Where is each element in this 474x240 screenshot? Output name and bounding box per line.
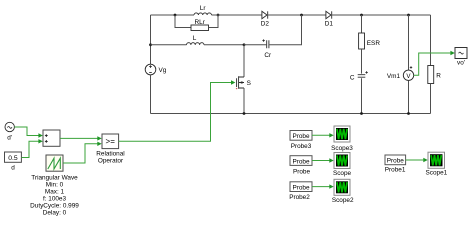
wire top rail segment 1: [151, 14, 195, 16]
node junction left-L: [149, 43, 152, 46]
diode D1: [326, 11, 332, 18]
node junction source-bottom: [243, 112, 246, 115]
wire bottom rail: [151, 113, 431, 115]
scope block Scope: [334, 153, 350, 169]
svg-text:D1: D1: [325, 21, 334, 28]
svg-text:Triangular Wave: Triangular Wave: [31, 175, 78, 182]
svg-text:V: V: [406, 73, 411, 80]
svg-text:Delay: 0: Delay: 0: [43, 210, 67, 217]
wire RLr branch right riser: [209, 15, 219, 28]
svg-text:C: C: [350, 75, 355, 82]
svg-text:Relational: Relational: [96, 151, 124, 158]
svg-text:Probe: Probe: [387, 158, 404, 165]
wire ESR to C: [361, 49, 363, 74]
scope block Scope2: [334, 179, 350, 195]
triangular wave block: [46, 155, 63, 171]
capacitor C: [358, 71, 368, 77]
scope block Scope1: [428, 152, 445, 168]
svg-text:Scope: Scope: [333, 170, 352, 177]
wire probe3 to scope3: [312, 134, 330, 136]
wire Vm1 bottom lead: [408, 81, 410, 114]
svg-text:d': d': [7, 135, 12, 142]
arrowhead relational input 2: [97, 142, 101, 146]
source block d': [5, 122, 14, 131]
svg-text:ESR: ESR: [367, 40, 381, 47]
node junction drain: [243, 43, 246, 46]
wire MOSFET drain: [243, 45, 245, 77]
arrowhead scope3: [329, 133, 333, 137]
inductor Lr: [194, 13, 212, 15]
sum block: [43, 130, 60, 146]
svg-text:Lr: Lr: [200, 5, 207, 12]
arrowhead relational input 1: [97, 136, 101, 140]
svg-text:f: 100e3: f: 100e3: [43, 196, 67, 203]
svg-text:Probe: Probe: [292, 158, 309, 165]
svg-text:RLr: RLr: [195, 19, 206, 26]
node junction Vm1-top: [407, 14, 410, 17]
svg-text:Max: 1: Max: 1: [45, 189, 65, 196]
svg-text:L: L: [193, 35, 197, 42]
svg-text:Vm1: Vm1: [387, 73, 401, 80]
svg-text:Probe2: Probe2: [289, 194, 310, 201]
svg-text:Min: 0: Min: 0: [46, 182, 64, 189]
svg-text:D2: D2: [261, 21, 270, 28]
voltage source Vg: [145, 64, 156, 75]
wire probe1 to scope1: [406, 159, 424, 161]
svg-text:Scope3: Scope3: [331, 145, 353, 152]
node junction parallel-left: [174, 14, 177, 17]
arrowhead sum input 2: [38, 139, 42, 143]
probe block Probe1: [385, 155, 406, 165]
svg-text:Probe: Probe: [292, 184, 309, 191]
probe block Probe3: [290, 131, 312, 141]
resistor RLr: [191, 25, 209, 31]
wire left vertical upper (Vg top lead): [150, 15, 152, 64]
svg-text:Probe1: Probe1: [385, 166, 406, 173]
probe block Probe2: [290, 182, 312, 192]
wire R bottom lead: [430, 84, 432, 114]
wire C bottom lead: [361, 78, 363, 113]
arrowhead gate: [231, 80, 235, 84]
node junction Vm1-bottom: [407, 112, 410, 115]
arrowhead vo': [450, 51, 454, 55]
node junction ESR-top: [360, 14, 363, 17]
svg-text:Probe3: Probe3: [291, 143, 312, 150]
wire Vm1 top lead: [408, 15, 410, 70]
node junction parallel-right: [217, 14, 220, 17]
svg-text:d: d: [11, 165, 15, 172]
wire probe2 to scope2: [312, 186, 330, 188]
svg-text:Operator: Operator: [98, 158, 124, 165]
svg-text:Scope1: Scope1: [426, 170, 448, 177]
scope block Scope3: [334, 126, 350, 142]
wire top rail segment 3: [268, 14, 326, 16]
svg-text:>=: >=: [106, 137, 116, 146]
arrowhead scope1: [423, 158, 427, 162]
transistor S (MOSFET): [236, 76, 244, 89]
arrowhead scope: [329, 158, 333, 162]
wire Vm1 to vo': [414, 53, 451, 75]
wire probe to scope: [312, 160, 330, 162]
wire relational to gate: [119, 83, 232, 142]
probe block Probe: [290, 156, 312, 166]
arrowhead scope2: [329, 184, 333, 188]
wire Cr row left: [244, 44, 266, 46]
wire triangular to relational: [63, 144, 98, 163]
wire 0.5 to sum: [21, 141, 39, 157]
wire L row right: [204, 44, 244, 46]
svg-text:R: R: [436, 73, 441, 80]
wire top rail segment 2: [212, 14, 263, 16]
svg-text:DutyCycle: 0.999: DutyCycle: 0.999: [30, 203, 79, 210]
outport block vo': [455, 48, 467, 59]
wire d' to sum: [14, 127, 38, 136]
node junction C-bottom: [360, 112, 363, 115]
resistor ESR: [359, 33, 365, 49]
wire top rail segment 4: [332, 14, 431, 16]
svg-text:Probe: Probe: [293, 169, 310, 176]
relational operator block: [102, 134, 119, 149]
wire sum to relational: [60, 137, 98, 139]
wire L row left: [151, 44, 187, 46]
voltmeter Vm1: [403, 66, 413, 80]
wire R top lead: [430, 15, 432, 66]
diode D2: [262, 11, 268, 18]
wire RLr branch left drop: [175, 15, 191, 28]
svg-text:Vg: Vg: [159, 67, 167, 74]
wire left vertical lower (Vg bottom lead): [150, 75, 152, 114]
wire ESR top lead: [361, 15, 363, 33]
constant block 0.5: [5, 152, 22, 162]
svg-text:0.5: 0.5: [8, 155, 18, 162]
svg-text:Cr: Cr: [264, 52, 272, 59]
svg-text:Scope2: Scope2: [332, 197, 354, 204]
node junction Cr-top: [300, 14, 303, 17]
svg-text:vo': vo': [457, 60, 465, 67]
svg-text:Probe: Probe: [292, 133, 309, 140]
resistor R: [428, 66, 434, 84]
inductor L: [187, 43, 205, 45]
arrowhead sum input 1: [38, 133, 42, 137]
wire Cr row right riser: [269, 15, 301, 45]
capacitor Cr: [262, 39, 269, 48]
svg-text:S: S: [247, 80, 251, 87]
wire MOSFET source: [243, 88, 245, 114]
